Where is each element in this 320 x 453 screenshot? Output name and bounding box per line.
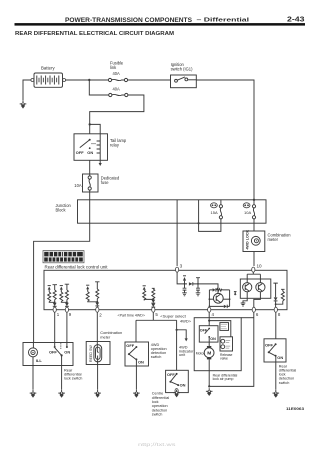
junction block fuse 15A [219, 205, 222, 219]
wire 10A fuse top [253, 200, 255, 205]
op switch arm [129, 347, 137, 354]
chassis ground Q2 [241, 303, 246, 306]
svg-text:switch: switch [152, 413, 163, 417]
svg-text:ON: ON [64, 349, 70, 354]
svg-text:Rear differential lock control: Rear differential lock control unit [45, 265, 109, 270]
wire battery to ground [23, 80, 31, 101]
svg-text:REAR DIFFERENTIAL ELECTRICAL: REAR DIFFERENTIAL ELECTRICAL CIRCUIT DIA… [15, 31, 174, 37]
svg-text:2-43: 2-43 [287, 15, 305, 24]
wire pin6 to pump ground rail [209, 312, 254, 386]
svg-text:9: 9 [69, 312, 72, 317]
node cluster5 [152, 298, 154, 300]
wire node3 internal [177, 272, 187, 284]
wire relay to motor [208, 337, 210, 346]
dedicated fuse box [83, 174, 99, 192]
wire relay coil branch [90, 124, 101, 139]
timer box [220, 323, 229, 331]
4WD operation detection switch box [125, 342, 149, 366]
svg-text:lock switch: lock switch [64, 377, 82, 381]
valve squiggles [226, 340, 231, 348]
resistor R4 [60, 292, 63, 302]
svg-text:switch: switch [151, 355, 162, 359]
transistor Q3 [256, 283, 265, 292]
ground centre switch [173, 390, 180, 398]
node battery junction [88, 79, 90, 81]
svg-text:switch: switch [279, 381, 290, 385]
wire pump box stub to pin6 wire [241, 317, 254, 319]
svg-text:40A: 40A [113, 87, 121, 92]
node Q1 top [217, 289, 219, 291]
wire coil to terminator [99, 156, 101, 164]
svg-text:fuse: fuse [101, 180, 109, 185]
reed switch capsule [94, 345, 102, 362]
svg-text:meter: meter [268, 237, 279, 242]
chassis ground C1 [182, 293, 187, 296]
diode D1 [53, 303, 57, 307]
wire Q3 to pin6 [254, 292, 261, 310]
pin 6 [252, 307, 255, 312]
pullup bar right [273, 283, 277, 297]
svg-text:– Differential: – Differential [197, 18, 250, 24]
motor M1 [204, 346, 214, 359]
ignition switch SW1 [171, 75, 197, 88]
svg-text:10A: 10A [74, 183, 82, 188]
reed element [97, 342, 98, 365]
op switch lower contact [129, 354, 136, 359]
wire Q1 right link [223, 298, 230, 300]
node 3 [176, 267, 179, 272]
wire branch to release valve [209, 321, 231, 337]
svg-text:10A: 10A [244, 210, 251, 215]
pump relay ON contact [208, 336, 210, 338]
svg-text:REED SW: REED SW [89, 345, 93, 362]
fusible link fuse 2 [109, 93, 128, 96]
driver box U2 [240, 279, 270, 298]
svg-text:OFF: OFF [49, 349, 57, 354]
wire diode to Q1 collector [193, 284, 218, 294]
diode D9 [274, 297, 278, 301]
resistor R10 [217, 289, 223, 292]
centre switch contact [176, 373, 178, 375]
release valve box [220, 337, 233, 351]
wire relay to dedicated fuse [89, 160, 91, 176]
centre switch arm [170, 374, 176, 382]
centre switch output pin [175, 389, 178, 394]
zener Z2 branch [60, 286, 63, 290]
capacitor C2 [196, 284, 200, 293]
pin 4 [208, 307, 211, 312]
resistor R1 [53, 290, 56, 300]
wire fuse2 to tail lamp relay [90, 95, 144, 134]
node pump ground junction [208, 385, 210, 387]
svg-text:M: M [207, 351, 211, 357]
ground battery [20, 101, 27, 109]
wire junction block to node 3 [176, 200, 178, 266]
wire pin1 to lock switch [54, 312, 56, 347]
wire ILL lamp to ground [32, 343, 34, 390]
ground lock switch [58, 390, 65, 398]
Q1 drive branch wires [209, 290, 229, 310]
wire 10A fuse to combination meter lamp [253, 219, 255, 231]
release valve coil B [221, 345, 225, 349]
input cluster pin5: resistor R7 [152, 287, 155, 290]
pump relay contact [208, 328, 210, 330]
ground detection [273, 390, 280, 398]
resistor R3 [65, 290, 68, 300]
junction block 15A fuse connector [211, 203, 218, 208]
wire ignition to junction block [196, 80, 254, 200]
svg-text:OFF: OFF [76, 150, 84, 155]
svg-text:4WD>: 4WD> [180, 318, 192, 323]
svg-text:3: 3 [180, 264, 183, 269]
node Q1 bottom [209, 306, 211, 308]
wire reed to ground [97, 365, 99, 390]
wire R1 to diode [54, 300, 56, 303]
svg-text:ON: ON [87, 150, 93, 155]
pump relay arm [205, 329, 210, 334]
reed switch box [86, 342, 110, 365]
diode D2 [65, 303, 69, 307]
wire pin8 to detection switch [275, 312, 277, 339]
wire through junction block from dedicated fuse [34, 200, 90, 343]
svg-text:unit: unit [179, 353, 186, 357]
svg-text:ON: ON [210, 337, 216, 341]
zener Z4 branch [143, 286, 146, 290]
lock switch contacts [54, 346, 56, 348]
wire R8 to node cluster5 [144, 299, 153, 300]
node n3b [197, 283, 199, 285]
wire branch to fuse 2 [89, 80, 108, 95]
svg-text:Motor: Motor [196, 351, 206, 355]
svg-text:valve: valve [220, 356, 228, 360]
svg-text:relay: relay [110, 142, 120, 147]
wire pin2 to reed switch [96, 312, 98, 341]
pin 1 [53, 307, 56, 312]
svg-text:Block: Block [56, 208, 67, 213]
pullup bar n3b [196, 278, 200, 284]
lock switch linkage [60, 343, 62, 350]
svg-text:ON: ON [277, 355, 283, 360]
svg-text:POWER-TRANSMISSION COMPONENTS: POWER-TRANSMISSION COMPONENTS [65, 17, 193, 24]
pump relay box [199, 326, 218, 342]
rear differential lock switch box [23, 343, 73, 366]
diode D7 series [189, 282, 193, 285]
centre diff lock switch box [166, 370, 189, 392]
detection arm [269, 344, 276, 352]
svg-text:OFF: OFF [126, 343, 134, 348]
svg-text:ILL: ILL [36, 358, 43, 363]
resistor R8 [143, 290, 146, 300]
wire pin4 to air pump [208, 312, 210, 326]
arrow to 4WD indicator unit [185, 338, 188, 341]
node ignition feed junction [253, 199, 255, 201]
air pump outer box [194, 318, 241, 371]
resistor R5 [96, 289, 99, 299]
wire D1 to pin 1 [54, 307, 56, 310]
lock switch common arm [61, 354, 63, 356]
wire R2 to node [49, 301, 55, 304]
svg-text:5: 5 [155, 312, 158, 317]
node cluster1 [54, 301, 56, 303]
svg-text:4: 4 [212, 312, 215, 317]
header rule bar [15, 23, 306, 26]
wire 15A fuse top [220, 200, 222, 205]
svg-text:ON: ON [138, 360, 144, 365]
transistor Q1 [213, 293, 223, 303]
wire op switch to ground [135, 359, 137, 389]
junction block fuse 10A [252, 205, 255, 219]
svg-text:nttp;//txt.ws: nttp;//txt.ws [138, 442, 177, 447]
wire node10 internal [247, 272, 260, 282]
diode D6 up branch [183, 275, 186, 277]
wire motor to pump bottom [208, 359, 210, 386]
ILL lamp L2 [29, 348, 38, 357]
svg-text:lock air pump: lock air pump [213, 377, 234, 381]
svg-text:meter: meter [100, 334, 111, 339]
capacitor C1 [183, 284, 187, 293]
svg-text:11E0063: 11E0063 [286, 406, 305, 411]
diode D5 [151, 304, 155, 308]
input cluster pin1: pullup bar [53, 285, 58, 290]
wire Q1 bottom branch [209, 305, 229, 307]
svg-text:6: 6 [256, 312, 259, 317]
wire lock switch common to ground [61, 355, 63, 389]
wire dedicated fuse to junction block [89, 190, 91, 200]
ground ILL [30, 390, 37, 398]
combination meter indicator box [243, 231, 265, 252]
transistor Q2 [243, 283, 252, 292]
chassis ground C2 [196, 293, 201, 296]
wire to 4WD indicator unit [177, 330, 187, 339]
zener Z3 branch [86, 285, 89, 289]
wire R9 to node [276, 301, 283, 304]
centre switch lower contact [170, 382, 178, 385]
svg-text:10: 10 [257, 263, 263, 268]
node pin5 branch [176, 329, 178, 331]
svg-text:1: 1 [57, 312, 60, 317]
resistor R2 [48, 292, 51, 302]
svg-text:2: 2 [99, 313, 102, 318]
resistor R6 [86, 292, 89, 302]
control unit U1 box [44, 270, 287, 309]
diode D4 [151, 300, 155, 304]
svg-text:OFF: OFF [265, 342, 274, 347]
wire D9 to pin8 node [275, 301, 277, 310]
tail lamp relay K1 [74, 134, 108, 161]
node 15A loop crossing [198, 222, 200, 224]
control unit connector block [43, 251, 84, 263]
ground reed [94, 390, 101, 398]
diode D10 [213, 288, 216, 291]
wire relay input junction [89, 123, 91, 125]
svg-text:ON: ON [180, 383, 186, 388]
release valve coil A [221, 339, 225, 343]
detection lower contact [269, 352, 275, 355]
ground pump [206, 388, 213, 396]
wire Q1 left link [209, 298, 213, 300]
detection contact [275, 343, 277, 345]
timer squiggles [221, 324, 227, 329]
pin 5 [152, 307, 155, 312]
wire battery to fusible link [66, 79, 109, 81]
diode D3 [95, 302, 99, 306]
svg-text:8: 8 [278, 312, 281, 317]
svg-text:15A: 15A [211, 210, 218, 215]
zener Z1 branch [48, 286, 51, 290]
coil terminator arrow [99, 163, 102, 166]
dedicated fuse F1 10A [88, 176, 91, 190]
input cluster pin2: pullup bar [95, 282, 99, 289]
pin 8 [274, 307, 277, 312]
wire lamp to node 10 [253, 252, 255, 267]
fusible link fuse 1 [108, 78, 127, 81]
diode D8 flyback [224, 305, 227, 308]
input cluster pin9: pullup bar [65, 284, 69, 290]
junction block 10A fuse connector [243, 203, 250, 208]
junction block J/B [78, 200, 267, 223]
svg-text:link: link [110, 65, 117, 70]
pin 9 [65, 307, 68, 312]
rear detection switch box [264, 339, 286, 362]
zener Z5 stub [234, 292, 237, 296]
resistor R9 branch [281, 289, 285, 291]
wire pin5 split [136, 312, 177, 370]
node pin4 branch [208, 320, 210, 322]
svg-text:4WD LOCK: 4WD LOCK [245, 229, 249, 249]
svg-text:Battery: Battery [41, 66, 55, 71]
wire fuse1 to ignition switch [128, 79, 171, 81]
pin 2 [96, 307, 99, 312]
svg-text:switch (IG1): switch (IG1) [171, 67, 193, 72]
node Q1 right [229, 298, 231, 300]
wire detection to ground [275, 356, 277, 390]
wire 15A fuse output loop [199, 200, 221, 232]
battery B1 [31, 73, 66, 87]
node n3a [184, 283, 186, 285]
wire pin9 to lock switch [66, 312, 68, 347]
indicator lamp L1 [251, 236, 260, 245]
ground op switch [133, 390, 140, 398]
svg-text:<Part time 4WD>: <Part time 4WD> [118, 312, 146, 317]
node Q1 left [209, 298, 211, 300]
wire Q2 to chassis ground [243, 292, 247, 303]
node 10 [252, 267, 255, 272]
node pin8 [275, 303, 277, 305]
svg-text:40A: 40A [113, 71, 121, 76]
op switch contact [135, 346, 137, 348]
